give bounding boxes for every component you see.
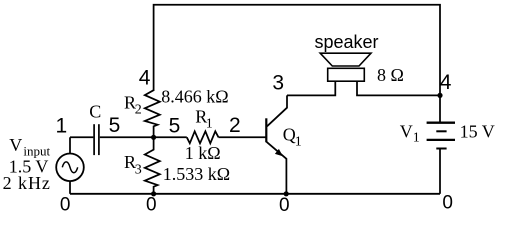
- wire collector to speaker: [287, 81, 335, 95]
- resistor R1 zigzag: [187, 131, 219, 143]
- svg-text:0: 0: [60, 194, 71, 215]
- svg-text:2: 2: [135, 103, 142, 118]
- svg-text:8.466 kΩ: 8.466 kΩ: [161, 87, 228, 107]
- svg-text:0: 0: [279, 195, 290, 216]
- transistor Q1 emitter lead: [267, 142, 287, 194]
- svg-text:V: V: [9, 135, 22, 155]
- svg-text:V: V: [400, 122, 413, 142]
- wire top rail from node 4 column to right column: [154, 5, 440, 96]
- node 4 junction dot: [437, 93, 442, 98]
- wire source top: [69, 137, 71, 153]
- ground rail wire: [70, 193, 440, 195]
- node 5 junction dot: [151, 135, 156, 140]
- battery V1 plate 4 short: [436, 148, 446, 150]
- battery V1 plate 1 long: [427, 122, 455, 124]
- capacitor C plate right: [98, 124, 100, 155]
- svg-text:4: 4: [139, 66, 151, 89]
- svg-text:15 V: 15 V: [460, 122, 495, 142]
- speaker horn: [320, 53, 371, 66]
- svg-text:1: 1: [295, 135, 302, 150]
- svg-text:speaker: speaker: [315, 32, 379, 52]
- wire battery to ground rail: [439, 149, 441, 194]
- svg-text:1: 1: [55, 115, 67, 138]
- capacitor C plate left: [93, 124, 95, 155]
- svg-text:5: 5: [169, 115, 181, 138]
- speaker box: [328, 68, 365, 81]
- svg-text:1.533 kΩ: 1.533 kΩ: [163, 164, 230, 184]
- wire node 4 to battery: [439, 95, 441, 122]
- battery V1 plate 3 long: [427, 139, 455, 141]
- svg-text:C: C: [89, 101, 101, 121]
- svg-text:1: 1: [206, 117, 213, 132]
- wire speaker to node 4: [357, 81, 440, 95]
- svg-text:3: 3: [272, 71, 284, 94]
- source sine wave: [62, 162, 77, 173]
- transistor Q1 emitter arrowhead: [275, 149, 283, 156]
- svg-text:5: 5: [109, 114, 121, 137]
- ground junction dot emitter: [284, 191, 289, 196]
- svg-text:Q: Q: [283, 125, 296, 145]
- svg-text:0: 0: [442, 193, 453, 214]
- svg-text:2: 2: [229, 114, 241, 137]
- transistor Q1 base bar: [265, 118, 267, 142]
- source Vinput circle: [56, 154, 84, 182]
- battery V1 plate 2 short: [436, 130, 446, 132]
- wire node 1 segment: [70, 136, 93, 138]
- wire node 2 segment: [219, 136, 267, 138]
- svg-text:1: 1: [413, 131, 420, 146]
- wire node 5 segment: [100, 136, 187, 138]
- svg-text:8 Ω: 8 Ω: [377, 65, 404, 85]
- ground junction dot R3: [151, 191, 156, 196]
- svg-text:4: 4: [440, 71, 452, 94]
- resistor R2 zigzag: [145, 90, 160, 137]
- svg-text:2 kHz: 2 kHz: [3, 173, 50, 193]
- resistor R3 zigzag: [145, 137, 160, 194]
- wire source bottom: [69, 181, 71, 194]
- svg-text:0: 0: [146, 195, 157, 216]
- svg-text:3: 3: [135, 163, 142, 178]
- transistor Q1 collector lead: [267, 95, 287, 126]
- svg-text:1 kΩ: 1 kΩ: [185, 143, 221, 163]
